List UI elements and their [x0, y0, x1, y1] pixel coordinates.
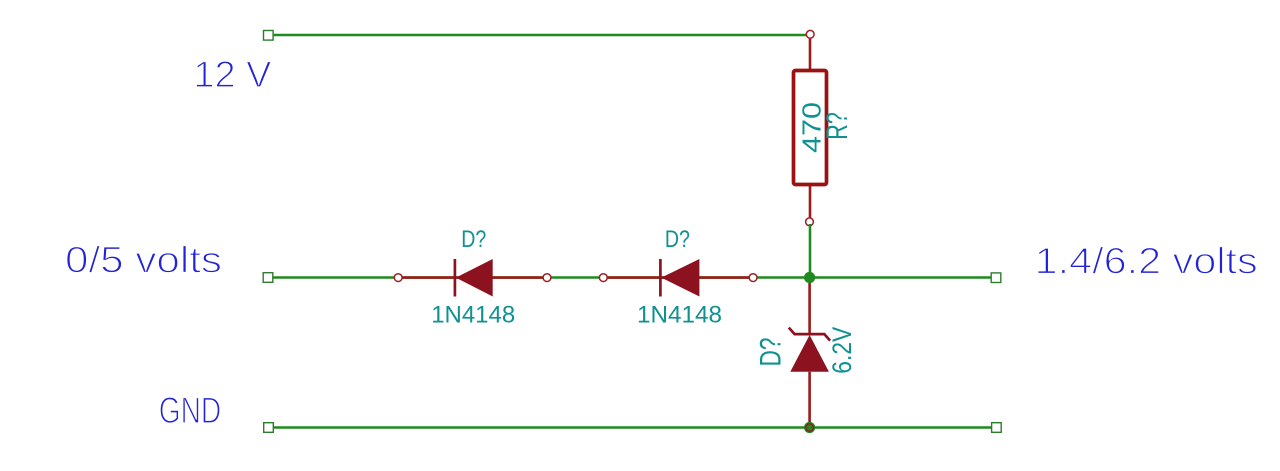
svg-text:R?: R?	[821, 112, 854, 140]
unconnected wire end square (GND rail, right)	[992, 423, 1002, 433]
svg-text:D?: D?	[755, 338, 788, 367]
svg-text:D?: D?	[461, 226, 486, 253]
svg-text:6.2V: 6.2V	[827, 327, 857, 374]
unconnected wire end square (middle, left)	[263, 273, 273, 283]
svg-text:0/5 volts: 0/5 volts	[65, 240, 222, 281]
wire: resistor bottom to middle node	[809, 224, 812, 278]
resistor R? (470)	[794, 30, 827, 225]
svg-text:12 V: 12 V	[193, 54, 271, 95]
junction node (middle wire / resistor / zener)	[804, 272, 815, 283]
svg-text:GND: GND	[159, 390, 222, 431]
zener diode D? (6.2V)	[789, 278, 830, 432]
diode D? #2 (1N4148, right)	[599, 259, 757, 297]
junction node (zener anode / GND rail)	[804, 422, 815, 433]
svg-text:1N4148: 1N4148	[431, 301, 515, 328]
unconnected wire end square (12V rail, left)	[264, 31, 274, 41]
wire: middle horizontal (0/5 volts to 1.4/6.2 volts)	[271, 276, 992, 279]
wire: GND rail (bottom horizontal)	[271, 426, 992, 429]
svg-text:D?: D?	[665, 226, 690, 253]
unconnected wire end square (GND rail, left)	[264, 423, 274, 433]
svg-text:1N4148: 1N4148	[637, 301, 722, 328]
unconnected wire end square (middle, right)	[991, 273, 1001, 283]
svg-text:1.4/6.2 volts: 1.4/6.2 volts	[1035, 241, 1258, 282]
wire: 12V rail (top horizontal)	[271, 34, 807, 37]
diode D? #1 (1N4148, left)	[394, 259, 551, 297]
